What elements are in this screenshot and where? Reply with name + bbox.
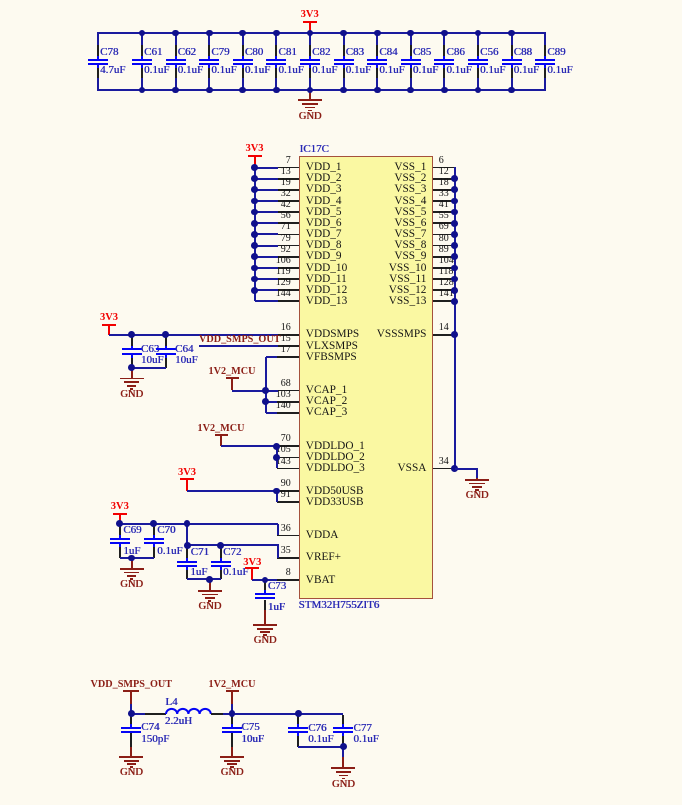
junction VREF drop bbox=[184, 520, 191, 527]
pin VCAP_3 (140) bbox=[0, 0, 1, 1]
wire bottom rail left bbox=[131, 713, 145, 715]
junction C71 ground bbox=[206, 576, 213, 583]
junction VDDLDO_1 bbox=[273, 443, 280, 450]
pin VDD_8 (79) bbox=[0, 0, 1, 1]
ground bbox=[0, 0, 1, 1]
pin VCAP_1 (68) bbox=[0, 0, 1, 1]
pin VDD_12 (129) bbox=[0, 0, 1, 1]
pin VREF+ (35) bbox=[0, 0, 1, 1]
capacitor C75 bbox=[0, 0, 1, 1]
junction C63 bbox=[128, 331, 135, 338]
pin VDD_11 (119) bbox=[0, 0, 1, 1]
pin VSS_8 (80) bbox=[0, 0, 1, 1]
ground bbox=[0, 0, 1, 1]
capacitor C81 bbox=[0, 0, 1, 1]
pin VDD50USB (90) bbox=[0, 0, 1, 1]
wire VFBSMPS pin 17 down to VCAP bbox=[0, 0, 1, 1]
junction VDDLDO_2 bbox=[273, 454, 280, 461]
pin VLXSMPS (15) bbox=[0, 0, 1, 1]
pin VDDLDO_2 (105) bbox=[0, 0, 1, 1]
capacitor C84 bbox=[0, 0, 1, 1]
junction VDD_SMPS_OUT node bbox=[128, 710, 135, 717]
capacitor C80 bbox=[0, 0, 1, 1]
pin VSS_5 (41) bbox=[0, 0, 1, 1]
junction VCAP_1 bbox=[262, 387, 269, 394]
IC IC17C body bbox=[0, 0, 1, 1]
junction C70 bbox=[150, 520, 157, 527]
junction dots right VSS bus bbox=[0, 0, 1, 1]
junction dots left VDD bus bbox=[0, 0, 1, 1]
capacitor C56 bbox=[0, 0, 1, 1]
pin VDD_13 (144) bbox=[0, 0, 1, 1]
junction dots top rail bbox=[0, 0, 1, 1]
wire 3V3 to VBAT pin 8 bbox=[252, 579, 277, 581]
power 3V3 bbox=[0, 0, 1, 1]
pin VSS_4 (33) bbox=[0, 0, 1, 1]
capacitor C64 bbox=[0, 0, 1, 1]
pin VSS_3 (18) bbox=[0, 0, 1, 1]
wire bottom GND rail bbox=[97, 89, 546, 91]
pin VBAT (8) bbox=[0, 0, 1, 1]
capacitor C73 bbox=[0, 0, 1, 1]
pin VSS_7 (69) bbox=[0, 0, 1, 1]
junction C77 ground bbox=[340, 743, 347, 750]
pin VSS_11 (118) bbox=[0, 0, 1, 1]
pin VDDSMPS (16) bbox=[0, 0, 1, 1]
capacitor C86 bbox=[0, 0, 1, 1]
ground bbox=[0, 0, 1, 1]
pin VSS_13 (141) bbox=[0, 0, 1, 1]
pin VDD_4 (32) bbox=[0, 0, 1, 1]
capacitor C62 bbox=[0, 0, 1, 1]
pin VDDLDO_3 (143) bbox=[0, 0, 1, 1]
ground bbox=[0, 0, 1, 1]
capacitor C78 bbox=[0, 0, 1, 1]
pin VDD_2 (13) bbox=[0, 0, 1, 1]
pin VSS_6 (55) bbox=[0, 0, 1, 1]
power 3V3 bbox=[0, 0, 1, 1]
junction C71 bbox=[184, 542, 191, 549]
capacitor C71 bbox=[0, 0, 1, 1]
junction VCAP_2 bbox=[262, 398, 269, 405]
capacitor C79 bbox=[0, 0, 1, 1]
pin VDD_10 (106) bbox=[0, 0, 1, 1]
capacitor C88 bbox=[0, 0, 1, 1]
capacitor C63 bbox=[0, 0, 1, 1]
wire C69 C70 bottom bbox=[120, 557, 154, 559]
wire VREF+ rail bbox=[0, 0, 1, 1]
power 3V3 bbox=[0, 0, 1, 1]
junction C69 ground bbox=[128, 555, 135, 562]
pin VSS_1 (6) bbox=[0, 0, 1, 1]
pin VSSSMPS (14) bbox=[0, 0, 1, 1]
junction VDD50USB bbox=[273, 488, 280, 495]
capacitor C70 bbox=[0, 0, 1, 1]
power 3V3 bbox=[0, 0, 1, 1]
power port 1V2_MCU bbox=[0, 0, 1, 1]
wire C75 to C76 C77 bbox=[232, 713, 343, 715]
wire L4 to C75 bbox=[223, 713, 232, 715]
pin VDD_6 (56) bbox=[0, 0, 1, 1]
wire 3V3 to VDDSMPS pin 16 bbox=[109, 334, 278, 336]
pin VDDA (36) bbox=[0, 0, 1, 1]
power port VDD_SMPS_OUT bbox=[0, 0, 1, 1]
pin VFBSMPS (17) bbox=[0, 0, 1, 1]
junction 1V2_MCU node bbox=[229, 710, 236, 717]
pin VDD_1 (7) bbox=[0, 0, 1, 1]
power 3V3 bbox=[0, 0, 1, 1]
pin VDDLDO_1 (70) bbox=[0, 0, 1, 1]
wire C63 C64 bottom bbox=[132, 367, 166, 369]
capacitor C76 bbox=[0, 0, 1, 1]
capacitor C83 bbox=[0, 0, 1, 1]
capacitor C74 bbox=[0, 0, 1, 1]
pin VDD_5 (42) bbox=[0, 0, 1, 1]
pin VCAP_2 (103) bbox=[0, 0, 1, 1]
wire VDDA rail bbox=[0, 0, 1, 1]
pin VSS_10 (104) bbox=[0, 0, 1, 1]
wire left VDD bus bbox=[0, 0, 1, 1]
junction C76 bbox=[295, 710, 302, 717]
capacitor C61 bbox=[0, 0, 1, 1]
pin VSS_2 (12) bbox=[0, 0, 1, 1]
wire C76 C77 bottom bbox=[0, 0, 1, 1]
ground bbox=[0, 0, 1, 1]
pin VDD_3 (19) bbox=[0, 0, 1, 1]
pin VDD33USB (91) bbox=[0, 0, 1, 1]
ground bbox=[0, 0, 1, 1]
wire 1V2_MCU to VCAP pins bbox=[232, 390, 278, 392]
junction C69 bbox=[116, 520, 123, 527]
wire C71 C72 bottom bbox=[187, 578, 221, 580]
ground bbox=[0, 0, 1, 1]
capacitor C85 bbox=[0, 0, 1, 1]
power port 1V2_MCU bbox=[0, 0, 1, 1]
pin VSS_12 (128) bbox=[0, 0, 1, 1]
wire 3V3 to VDD50USB VDD33USB bbox=[0, 0, 1, 1]
power port 1V2_MCU bbox=[0, 0, 1, 1]
junction C72 bbox=[217, 542, 224, 549]
inductor L4 bbox=[0, 0, 1, 1]
junction dots bottom rail bbox=[0, 0, 1, 1]
capacitor C72 bbox=[0, 0, 1, 1]
power 3V3 bbox=[0, 0, 1, 1]
capacitor C82 bbox=[0, 0, 1, 1]
wire right VSS bus bbox=[0, 0, 1, 1]
capacitor C69 bbox=[0, 0, 1, 1]
wire 1V2_MCU to VDDLDO pins bbox=[0, 0, 1, 1]
capacitor C89 bbox=[0, 0, 1, 1]
capacitor C77 bbox=[0, 0, 1, 1]
pin VDD_9 (92) bbox=[0, 0, 1, 1]
pin VSSA (34) bbox=[0, 0, 1, 1]
junction C63 ground bbox=[128, 364, 135, 371]
wire VLXSMPS pin 15 bbox=[199, 345, 278, 347]
pin VDD_7 (71) bbox=[0, 0, 1, 1]
junction C64 bbox=[162, 331, 169, 338]
pin VSS_9 (89) bbox=[0, 0, 1, 1]
wire VSSA to ground bbox=[0, 0, 1, 1]
wire top 3V3 rail bbox=[97, 32, 546, 34]
ground bbox=[0, 0, 1, 1]
net label VDD_SMPS_OUT bbox=[199, 335, 281, 345]
ground bbox=[0, 0, 1, 1]
junction C73 bbox=[262, 577, 269, 584]
